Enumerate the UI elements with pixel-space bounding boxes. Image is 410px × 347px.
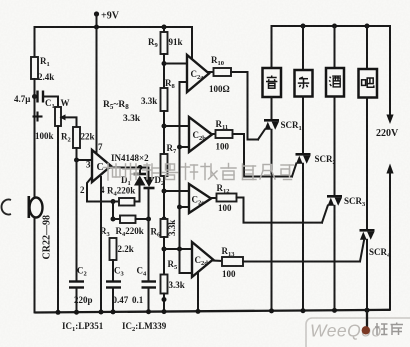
- lamp box 1 yin: [263, 68, 282, 97]
- wire R11 to SCR2 gate: [233, 134, 293, 177]
- node +9V rail junction at IC1 V+: [94, 25, 99, 30]
- resistor R6: [151, 219, 178, 239]
- resistor R9 91k: [148, 27, 183, 54]
- comparator IC2c: [189, 184, 211, 213]
- comparator IC2b: [189, 117, 212, 152]
- thyristor SCR3: [322, 195, 366, 310]
- wire IC1 pin2 feedback: [80, 178, 119, 202]
- wire IC1 V+ pin 7 drop: [97, 27, 104, 153]
- resistor R3v 2.2k: [110, 238, 134, 282]
- watermark weeqoo box: [306, 318, 410, 347]
- 220V source terminal lower arrow: [386, 164, 393, 310]
- wire IC2d ground stub: [197, 272, 199, 312]
- resistor R8 3.3k: [141, 78, 176, 111]
- comparator IC2d: [192, 242, 213, 277]
- resistor R11 100: [212, 119, 233, 152]
- wire tap to C2a: [164, 63, 187, 65]
- resistor R12 100: [211, 183, 237, 213]
- node +9V rail junction at R9: [162, 25, 167, 30]
- wire IC1 pin4 to ground: [100, 177, 105, 312]
- wire signal bus: [177, 82, 191, 273]
- 220V source terminal upper arrow: [376, 115, 399, 140]
- resistor R4 220k: [100, 216, 149, 239]
- node ground junctions: [56, 308, 370, 315]
- wire chain bottom to ground: [162, 294, 167, 313]
- watermark weeqoo red dot: [362, 326, 370, 334]
- watermark weiku glyphs: [375, 323, 403, 336]
- potentiometer W 100k: [35, 97, 70, 142]
- wire R10 to SCR1 gate: [231, 72, 258, 140]
- +9V supply terminal: [94, 11, 120, 28]
- wiper arrow of W: [60, 114, 77, 127]
- label IC2 type: [122, 321, 167, 333]
- wire lamp2 to SCR2: [302, 97, 304, 154]
- wire lamp1 to SCR1: [271, 97, 273, 120]
- op-amp IC1: [92, 150, 111, 182]
- lamp box 3 jiu: [326, 68, 344, 97]
- wire IC1 output: [111, 153, 149, 177]
- resistor R7: [161, 143, 178, 176]
- wire chain R6-R5: [162, 237, 167, 275]
- comparator IC2a: [187, 55, 209, 92]
- wire R13 to SCR4 gate: [243, 261, 360, 263]
- thyristor SCR2: [292, 153, 336, 311]
- wire ground bottom rail: [35, 310, 391, 313]
- resistor R13 100: [213, 246, 243, 279]
- wire lamp4 to SCR4: [366, 98, 368, 230]
- wire chain R7-R6: [162, 176, 167, 219]
- wire R2 to IC1 pin3: [77, 148, 93, 170]
- resistor R3 220k feedback: [107, 186, 140, 206]
- wire chain R9-R8: [162, 54, 167, 88]
- node AC rail lamp4: [365, 24, 370, 70]
- wire +9V top rail: [35, 27, 193, 59]
- lamp box 4 ba: [359, 69, 378, 98]
- resistor R1: [31, 56, 54, 82]
- wire SCR4 column stub into watermark: [366, 310, 368, 328]
- wire tap to C2c: [164, 190, 189, 192]
- node pin3 junction: [74, 158, 79, 163]
- node C1 tap: [32, 94, 37, 99]
- wire R12 to SCR3 gate: [237, 198, 323, 223]
- resistor R2 22k: [61, 127, 95, 148]
- lamp box 2 le: [295, 70, 313, 97]
- thyristor SCR4: [360, 229, 392, 310]
- node AC rail lamp2: [301, 24, 306, 71]
- watermark weeqoo text: [310, 321, 382, 341]
- wire tap to C2d upper input: [164, 248, 191, 250]
- capacitor C4 0.1u: [132, 266, 156, 313]
- capacitor C3 0.47u: [106, 266, 129, 313]
- node R3-R4 left junction: [111, 199, 116, 222]
- capacitor C1 4.7u: [14, 91, 58, 122]
- wire left rail upper: [34, 79, 36, 197]
- watermark hanzi row: [104, 164, 294, 181]
- resistor R5 3.3k: [161, 259, 185, 294]
- capacitor C2 220p: [69, 266, 93, 313]
- wire 220V AC top rail: [272, 26, 391, 114]
- wire lamp3 to SCR3: [334, 97, 336, 196]
- label R5~R8 3.3k: [103, 100, 141, 124]
- diode D1: [121, 174, 146, 202]
- node AC rail lamp3: [332, 24, 337, 69]
- wire pin3 node down to C2: [76, 160, 78, 282]
- diode D2: [144, 175, 165, 282]
- input terminal circle at left edge: [1, 200, 11, 215]
- wire pot bottom to ground rail: [57, 126, 59, 312]
- microphone CR22-98: [29, 196, 53, 312]
- wire chain R8-R7: [162, 111, 167, 154]
- node detector injection at R6 top: [162, 217, 167, 222]
- resistor R10 100ohm: [209, 55, 231, 94]
- thyristor SCR1: [258, 119, 302, 311]
- label IC1 type: [62, 321, 104, 333]
- wire tap to C2b: [164, 125, 189, 127]
